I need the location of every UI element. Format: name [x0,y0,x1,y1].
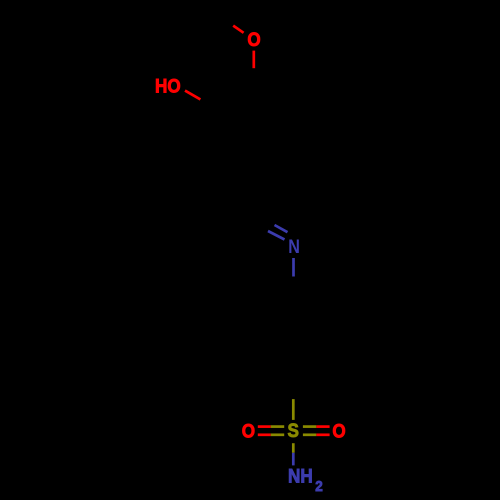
svg-text:HO: HO [155,76,181,97]
svg-text:S: S [287,420,298,441]
svg-text:NH: NH [288,466,313,487]
svg-text:N: N [288,236,300,258]
svg-text:2: 2 [315,479,323,496]
svg-text:O: O [247,29,260,50]
svg-text:O: O [242,421,255,442]
svg-text:O: O [332,421,345,442]
